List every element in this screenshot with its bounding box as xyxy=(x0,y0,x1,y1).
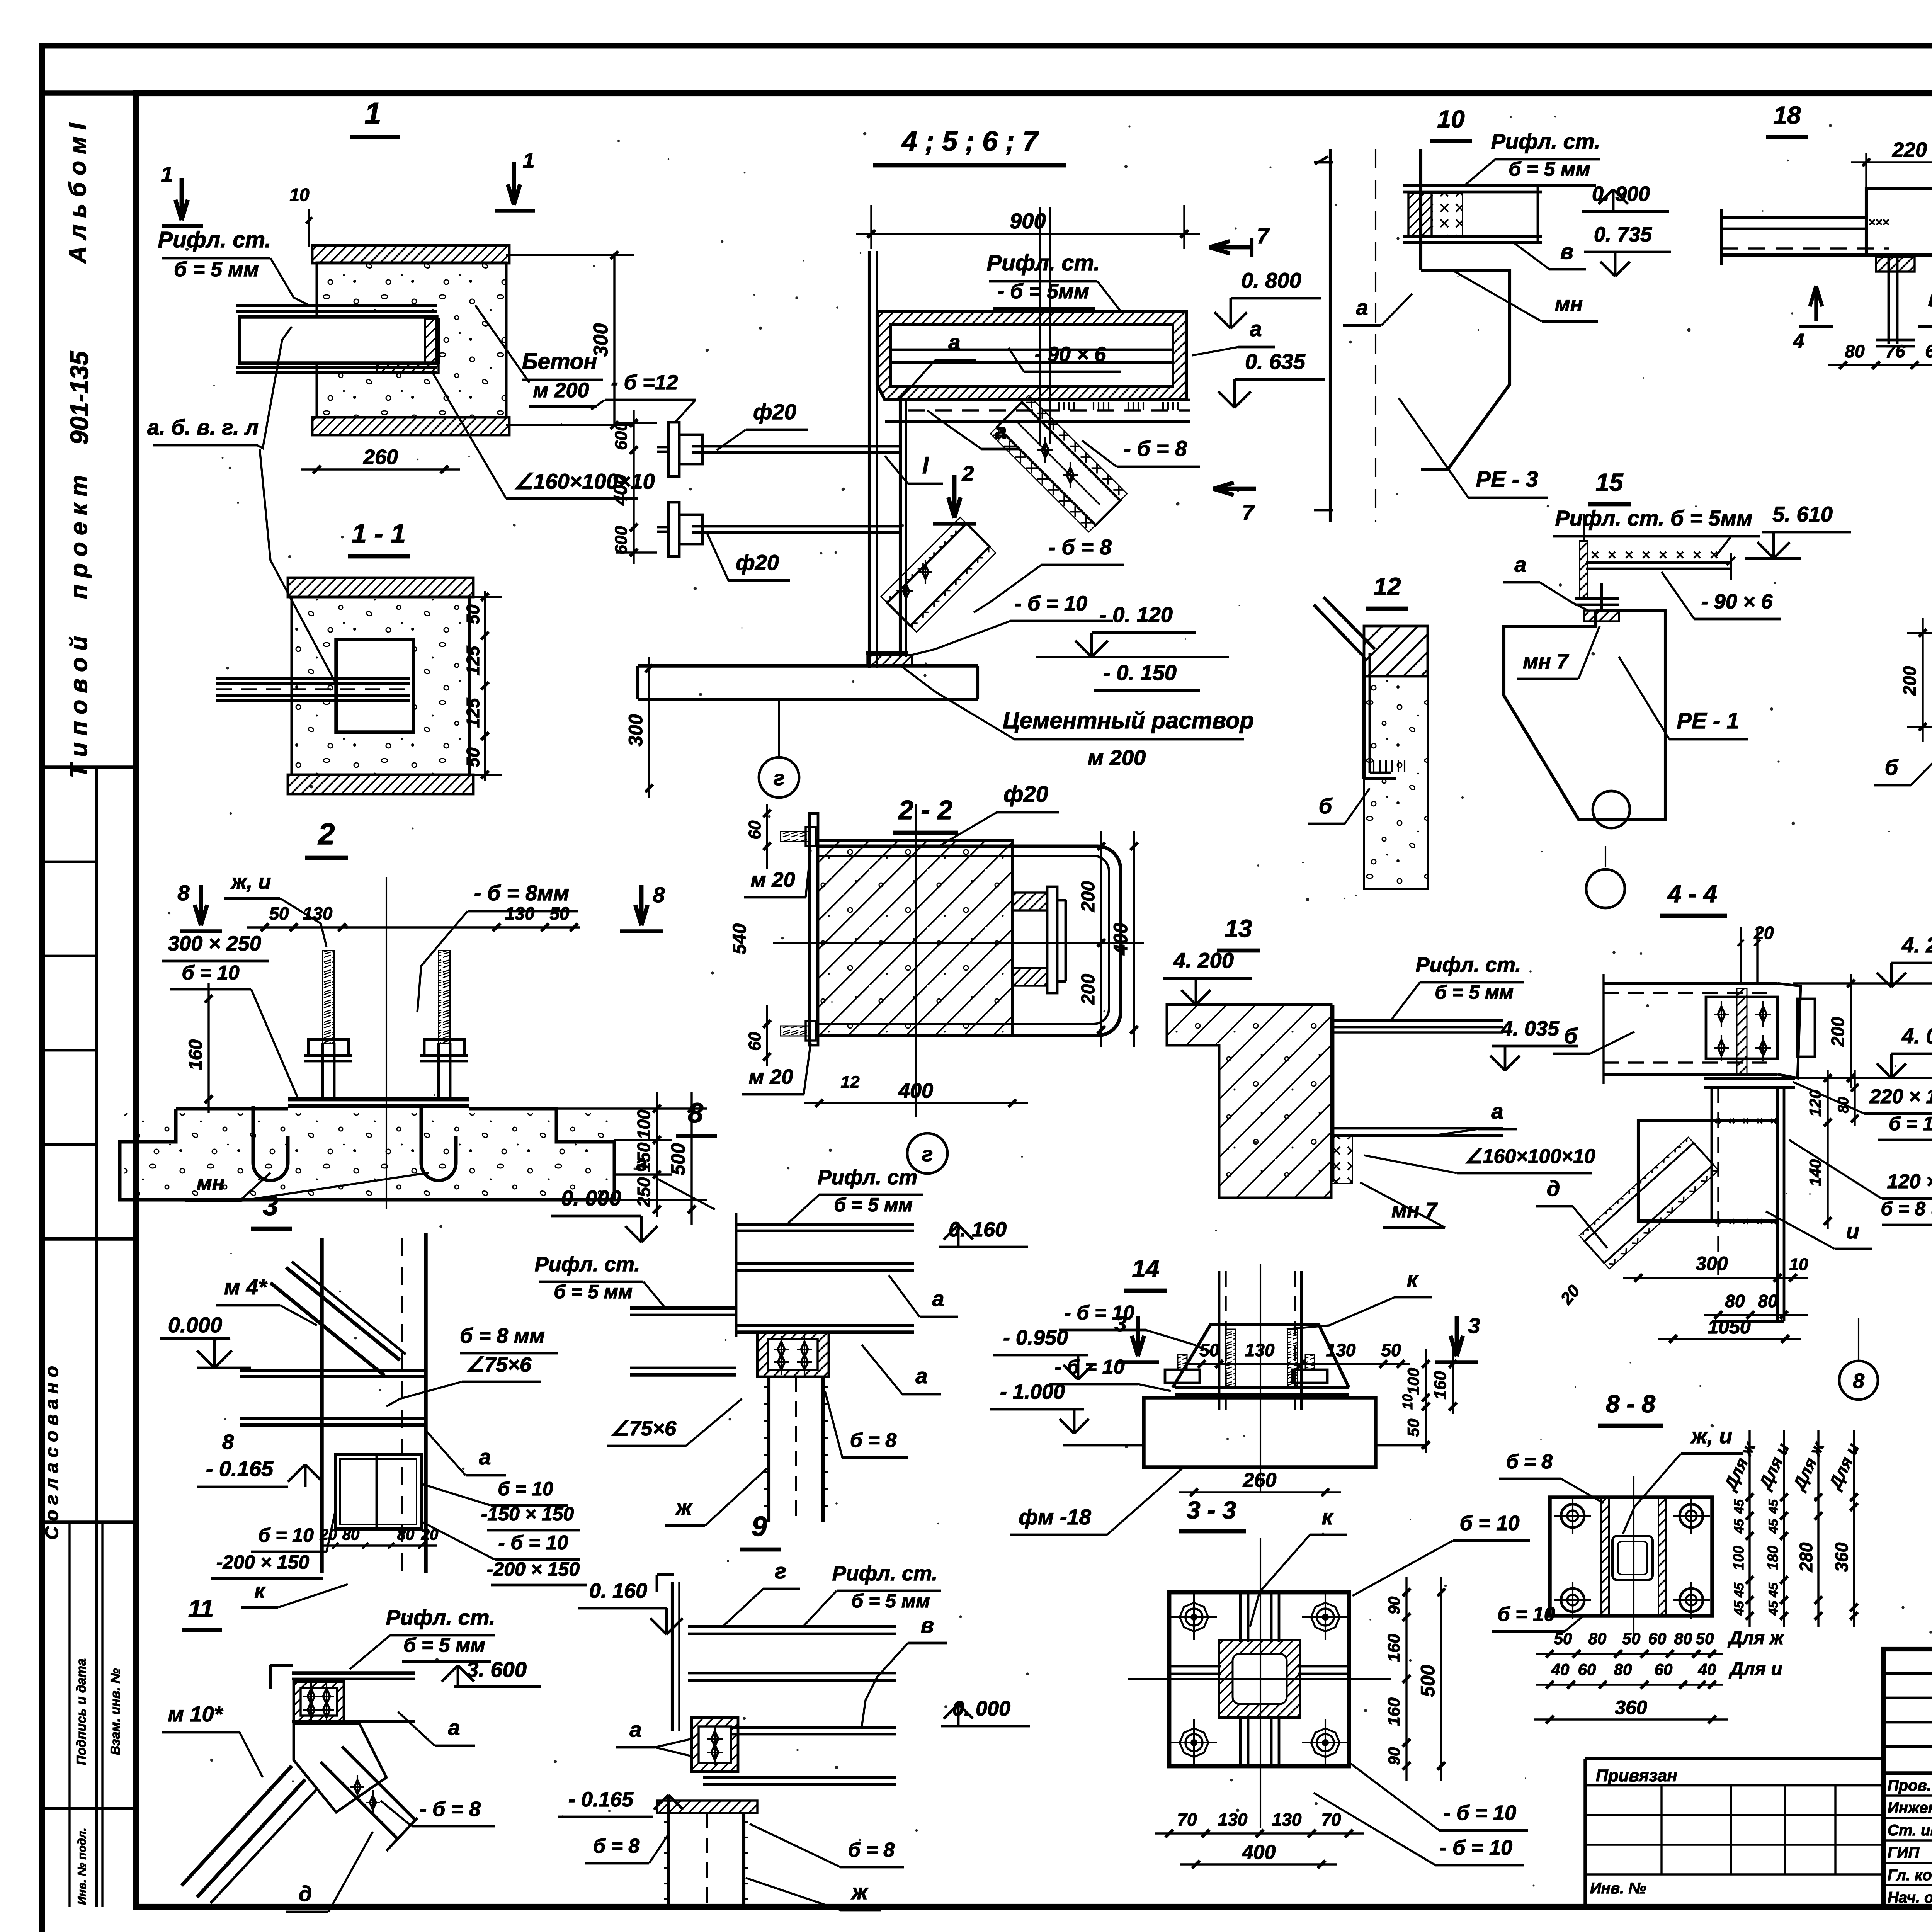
detail 9 lower beam xyxy=(703,1726,896,1729)
detail 2-2 left dims xyxy=(766,804,768,869)
detail 2-2 concrete block xyxy=(817,840,1012,1036)
svg-text:45: 45 xyxy=(1766,1600,1781,1616)
detail 11 top beam xyxy=(292,1671,415,1675)
detail 1-1 slot and beam xyxy=(336,639,413,732)
svg-text:б = 8: б = 8 xyxy=(1506,1451,1553,1473)
svg-text:160: 160 xyxy=(1384,1697,1403,1726)
svg-text:60: 60 xyxy=(745,820,764,839)
detail 1 section arrow 1 right xyxy=(512,162,516,205)
detail 4-4 bottom ticks xyxy=(1712,1320,1784,1323)
svg-text:0. 735: 0. 735 xyxy=(1594,223,1652,246)
detail 2-2 bottom bolt xyxy=(781,1026,810,1036)
svg-text:130: 130 xyxy=(505,903,535,923)
svg-text:3: 3 xyxy=(1468,1313,1480,1338)
svg-text:540: 540 xyxy=(730,923,750,954)
detail 2 top dims xyxy=(247,926,580,928)
svg-text:а: а xyxy=(448,1715,460,1740)
svg-text:50: 50 xyxy=(463,604,483,624)
svg-text:РЕ - 1: РЕ - 1 xyxy=(1677,708,1739,733)
detail 1-1 leader from 1 label xyxy=(260,449,336,684)
svg-text:8: 8 xyxy=(177,881,190,905)
title block outer xyxy=(1884,1649,1932,1907)
svg-text:п р о е к т: п р о е к т xyxy=(66,475,92,599)
detail 9 top beam xyxy=(688,1625,896,1628)
detail 4567 dim 900 xyxy=(856,233,1200,235)
svg-text:б: б xyxy=(1564,1024,1578,1048)
svg-text:б: б xyxy=(1319,794,1333,818)
svg-text:Рифл. ст.: Рифл. ст. xyxy=(158,227,271,252)
detail 2 dim 160 xyxy=(207,983,209,1113)
svg-text:Рифл. ст.: Рифл. ст. xyxy=(1416,953,1521,976)
detail 9 vertical post xyxy=(671,1582,674,1731)
svg-text:Рифл. ст.: Рифл. ст. xyxy=(535,1253,640,1276)
detail 3-3 centerlines xyxy=(1128,1678,1391,1680)
svg-text:10: 10 xyxy=(1789,1255,1808,1274)
svg-text:Для ж: Для ж xyxy=(1727,1628,1784,1648)
svg-text:500: 500 xyxy=(1417,1665,1439,1697)
svg-text:- б = 8: - б = 8 xyxy=(420,1798,481,1821)
detail 2-2 centerlines xyxy=(915,804,917,1117)
svg-text:- 0. 120: - 0. 120 xyxy=(1099,602,1173,627)
svg-text:220: 220 xyxy=(1892,138,1927,162)
svg-text:б = 5 мм: б = 5 мм xyxy=(174,258,259,281)
svg-text:д: д xyxy=(1547,1176,1560,1201)
svg-text:l: l xyxy=(922,453,929,478)
svg-text:50: 50 xyxy=(1622,1629,1641,1648)
svg-text:2: 2 xyxy=(317,817,335,851)
svg-text:8: 8 xyxy=(1853,1369,1864,1393)
svg-text:14: 14 xyxy=(1132,1255,1159,1282)
svg-text:200: 200 xyxy=(1078,881,1099,912)
svg-text:б = 5 мм: б = 5 мм xyxy=(1509,158,1590,180)
detail 8 left beam xyxy=(630,1306,736,1310)
svg-text:100: 100 xyxy=(1731,1546,1747,1570)
svg-text:200: 200 xyxy=(1078,974,1099,1005)
detail 14 foundation block xyxy=(1144,1398,1376,1467)
left stamp text Инв подпись strips xyxy=(68,1522,70,1907)
svg-text:20: 20 xyxy=(421,1526,439,1543)
detail 2-2 circled g xyxy=(907,1133,947,1173)
svg-text:7: 7 xyxy=(1242,500,1255,524)
detail 18 dim 220 xyxy=(1851,161,1932,163)
svg-text:ж, и: ж, и xyxy=(230,870,271,893)
detail 2 centerline xyxy=(386,877,387,1209)
svg-text:-200 × 150: -200 × 150 xyxy=(216,1551,310,1573)
detail 8-8 circled 8 xyxy=(1839,1361,1878,1400)
svg-text:360: 360 xyxy=(1615,1697,1647,1718)
svg-text:300: 300 xyxy=(625,714,646,747)
svg-text:Рифл. ст.: Рифл. ст. xyxy=(987,250,1100,276)
svg-text:64: 64 xyxy=(1925,341,1932,361)
detail 6-6 dim 200 xyxy=(1922,618,1923,742)
svg-text:А л ь б о м I: А л ь б о м I xyxy=(65,122,91,264)
svg-text:г: г xyxy=(636,1152,647,1175)
detail 3-3 right dims xyxy=(1405,1577,1407,1781)
svg-text:50: 50 xyxy=(1199,1340,1219,1360)
detail 4567 trough outer xyxy=(877,311,1186,400)
svg-text:к: к xyxy=(254,1579,266,1602)
detail 8 column box xyxy=(757,1332,829,1377)
svg-text:а: а xyxy=(1356,295,1368,320)
detail 2-2 stirrup bar xyxy=(818,846,1121,1036)
svg-text:м 20: м 20 xyxy=(750,868,795,891)
svg-text:ф20: ф20 xyxy=(753,400,796,424)
detail 4-4 dim 200 xyxy=(1850,974,1852,1088)
detail 2 concrete foundation xyxy=(176,1107,288,1111)
svg-text:- б = 8мм: - б = 8мм xyxy=(474,881,570,905)
detail 8-8 right chains xyxy=(1748,1430,1750,1627)
detail 14 column xyxy=(1218,1271,1221,1410)
svg-text:15: 15 xyxy=(1595,468,1624,496)
detail 2 anchor bolts xyxy=(323,951,334,1043)
svg-text:а. б. в. г. л: а. б. в. г. л xyxy=(147,415,259,439)
svg-text:400: 400 xyxy=(1242,1841,1276,1864)
svg-text:а: а xyxy=(629,1717,641,1742)
svg-text:г: г xyxy=(922,1143,933,1166)
svg-text:200: 200 xyxy=(1900,666,1920,696)
svg-text:300 × 250: 300 × 250 xyxy=(168,932,261,955)
svg-text:0.000: 0.000 xyxy=(168,1313,222,1337)
svg-text:901-135: 901-135 xyxy=(65,351,94,445)
svg-text:80: 80 xyxy=(1835,1097,1852,1113)
detail 4-4 diagonal brace xyxy=(1579,1137,1718,1269)
detail 8-8 centerline xyxy=(1633,1476,1634,1638)
svg-text:45: 45 xyxy=(1732,1499,1747,1514)
detail 3 box column below xyxy=(335,1454,421,1529)
detail 11 level 3.600 xyxy=(457,1665,459,1687)
title block row lines xyxy=(1884,1771,1932,1775)
detail 4567 left dims 600 400 600 xyxy=(633,410,634,564)
svg-text:- б = 8: - б = 8 xyxy=(1124,436,1187,461)
svg-text:б = 10: б = 10 xyxy=(1459,1512,1519,1535)
svg-text:г: г xyxy=(775,1559,786,1583)
svg-text:50: 50 xyxy=(549,903,570,923)
svg-text:4 - 4: 4 - 4 xyxy=(1667,880,1717,908)
svg-text:Инв. №: Инв. № xyxy=(1590,1880,1646,1897)
svg-text:б = 8 ш. 620: б = 8 ш. 620 xyxy=(1881,1198,1932,1219)
svg-text:б = 10: б = 10 xyxy=(258,1524,314,1546)
svg-text:120: 120 xyxy=(1806,1090,1824,1117)
detail 14 top dims xyxy=(1186,1363,1410,1365)
detail 11 bolt box xyxy=(294,1682,344,1722)
detail 2 section arrow 8 right xyxy=(639,885,644,925)
svg-text:100: 100 xyxy=(634,1109,654,1139)
detail 4567 left post xyxy=(868,251,871,668)
svg-text:Привязан: Привязан xyxy=(1596,1766,1677,1785)
detail 2-2 right bracket xyxy=(1012,893,1047,910)
svg-text:а: а xyxy=(1250,316,1262,341)
detail 2 J-bolts xyxy=(253,1106,288,1180)
detail 14 anchor bolts in gusset xyxy=(1226,1329,1236,1387)
detail 1-1 concrete block xyxy=(292,597,469,775)
svg-text:РЕ - 3: РЕ - 3 xyxy=(1476,467,1538,492)
svg-text:5. 610: 5. 610 xyxy=(1772,502,1833,526)
detail 1 section arrow 1 left xyxy=(180,178,184,220)
svg-text:Рифл. ст: Рифл. ст xyxy=(818,1166,917,1189)
svg-text:4. 200: 4. 200 xyxy=(1173,948,1234,973)
svg-text:д: д xyxy=(299,1881,312,1906)
svg-text:80: 80 xyxy=(1758,1291,1778,1311)
svg-text:20: 20 xyxy=(320,1526,337,1543)
svg-text:130: 130 xyxy=(1272,1810,1302,1830)
detail 18 arrows 4 xyxy=(1814,286,1818,321)
detail 14 gusset trapezoid xyxy=(1173,1325,1349,1388)
svg-text:45: 45 xyxy=(1732,1600,1747,1616)
svg-text:60: 60 xyxy=(1648,1629,1667,1648)
svg-text:Ст. инж.: Ст. инж. xyxy=(1888,1822,1932,1839)
detail 4-4 bottom dims xyxy=(1623,1277,1808,1279)
svg-text:600: 600 xyxy=(612,422,631,450)
svg-text:к: к xyxy=(1322,1505,1334,1529)
detail 4567 section arrow 7 top xyxy=(1209,245,1252,250)
svg-text:13: 13 xyxy=(1225,915,1252,942)
detail 4-4 bolt plate xyxy=(1706,997,1777,1059)
detail 3 bottom dims xyxy=(321,1544,437,1546)
svg-text:г: г xyxy=(774,767,785,790)
svg-text:0. 000: 0. 000 xyxy=(561,1186,621,1210)
svg-text:Для и: Для и xyxy=(1728,1659,1782,1679)
svg-text:- б = 8: - б = 8 xyxy=(1048,535,1112,559)
svg-text:4: 4 xyxy=(1793,330,1804,352)
detail 14 dim 260 xyxy=(1179,1491,1341,1493)
svg-text:8: 8 xyxy=(222,1430,234,1454)
svg-text:к: к xyxy=(1407,1267,1419,1291)
detail 18 bottom dims xyxy=(1828,364,1932,366)
svg-text:4. 000: 4. 000 xyxy=(1901,1024,1932,1048)
svg-text:50: 50 xyxy=(1554,1629,1572,1648)
svg-text:12: 12 xyxy=(841,1073,860,1092)
detail 10 top channel bracket xyxy=(1403,184,1542,187)
svg-text:120 × 180: 120 × 180 xyxy=(1887,1170,1932,1193)
svg-text:160: 160 xyxy=(1384,1634,1403,1662)
svg-text:18: 18 xyxy=(1773,101,1801,129)
svg-text:в: в xyxy=(1560,239,1573,264)
svg-text:б = 5 мм: б = 5 мм xyxy=(1435,981,1514,1003)
svg-text:60: 60 xyxy=(1578,1660,1596,1679)
svg-text:- 90 × 6: - 90 × 6 xyxy=(1701,590,1773,613)
svg-text:мн: мн xyxy=(197,1172,225,1195)
detail 4567 dim 300 lower left xyxy=(648,657,650,798)
svg-text:10: 10 xyxy=(1400,1394,1415,1410)
svg-text:мн 7: мн 7 xyxy=(1523,650,1570,673)
detail 4-4 beam xyxy=(1604,982,1777,985)
detail 1-1 dims right xyxy=(484,591,486,781)
top band line xyxy=(42,90,1932,96)
svg-text:- 90 × 6: - 90 × 6 xyxy=(1035,343,1107,366)
svg-text:б = 5 мм: б = 5 мм xyxy=(403,1634,485,1656)
detail 2 dims right xyxy=(656,1092,658,1217)
svg-text:а: а xyxy=(1514,552,1526,577)
svg-text:∠75×6: ∠75×6 xyxy=(466,1353,532,1376)
svg-text:ж: ж xyxy=(850,1879,869,1904)
svg-text:б = 5 мм: б = 5 мм xyxy=(851,1590,930,1612)
svg-text:б = 10: б = 10 xyxy=(182,962,239,984)
detail 13 concrete block xyxy=(1167,1005,1331,1198)
detail 11 stub brace xyxy=(321,1762,398,1839)
svg-text:8: 8 xyxy=(688,1098,703,1129)
detail 4-4 cap plate xyxy=(1704,1077,1795,1080)
svg-text:8 - 8: 8 - 8 xyxy=(1606,1390,1655,1418)
svg-text:70: 70 xyxy=(1321,1810,1341,1830)
detail 2-2 left plate xyxy=(810,813,818,1045)
svg-text:3 - 3: 3 - 3 xyxy=(1187,1496,1236,1524)
detail 3 diagonal brace m4 xyxy=(270,1283,384,1376)
svg-text:9: 9 xyxy=(752,1511,767,1542)
svg-text:ж: ж xyxy=(675,1495,693,1519)
svg-text:80: 80 xyxy=(1725,1291,1745,1311)
svg-text:12: 12 xyxy=(1373,573,1401,600)
svg-text:∠75×6: ∠75×6 xyxy=(611,1417,677,1440)
title block small grid xyxy=(1884,1672,1932,1675)
svg-text:Рифл. ст.: Рифл. ст. xyxy=(832,1562,938,1585)
svg-text:б: б xyxy=(1885,755,1899,779)
svg-text:м 200: м 200 xyxy=(1088,745,1146,770)
detail 18 right block xyxy=(1866,189,1932,255)
svg-text:40: 40 xyxy=(1551,1660,1570,1679)
svg-text:0. 800: 0. 800 xyxy=(1241,268,1301,293)
detail 1 dim 260 xyxy=(301,468,460,470)
svg-text:Гл. констр.: Гл. констр. xyxy=(1888,1867,1932,1884)
svg-text:70: 70 xyxy=(1177,1810,1197,1830)
svg-text:Подпись и дата: Подпись и дата xyxy=(74,1658,89,1765)
detail 2-2 top bolt xyxy=(781,832,810,842)
svg-text:б = 10: б = 10 xyxy=(1497,1603,1555,1626)
svg-text:40: 40 xyxy=(1698,1660,1716,1679)
detail 3 beam xyxy=(240,1369,426,1372)
detail 1 dim 300 xyxy=(613,253,615,427)
svg-text:2 - 2: 2 - 2 xyxy=(898,795,952,825)
svg-text:- б = 10: - б = 10 xyxy=(1444,1801,1516,1825)
detail 8-8 center tube xyxy=(1612,1536,1653,1580)
svg-text:м 200: м 200 xyxy=(533,379,589,402)
svg-text:260: 260 xyxy=(363,446,398,469)
detail 3 column xyxy=(320,1238,324,1573)
svg-text:Цементный раствор: Цементный раствор xyxy=(1003,707,1254,733)
detail 12 wall section xyxy=(1364,626,1428,676)
detail 1 concrete block xyxy=(317,263,506,417)
svg-text:160: 160 xyxy=(185,1039,206,1070)
detail 1 beam xyxy=(236,304,437,307)
svg-text:200: 200 xyxy=(1828,1017,1848,1047)
svg-text:76: 76 xyxy=(1885,341,1905,361)
svg-text:1 - 1: 1 - 1 xyxy=(352,519,406,549)
svg-text:45: 45 xyxy=(1732,1519,1747,1534)
svg-text:Инженер: Инженер xyxy=(1888,1799,1932,1816)
detail 1 embedded angle xyxy=(425,319,439,363)
detail 8-8 bottom rows xyxy=(1536,1653,1723,1655)
svg-text:300: 300 xyxy=(1696,1253,1728,1274)
svg-text:м 4*: м 4* xyxy=(224,1275,267,1299)
svg-text:- 1.000: - 1.000 xyxy=(1000,1380,1065,1403)
svg-text:- б = 5мм: - б = 5мм xyxy=(997,280,1089,303)
svg-text:4. 035: 4. 035 xyxy=(1501,1017,1560,1040)
detail 15 circle xyxy=(1593,791,1630,828)
svg-text:280: 280 xyxy=(1796,1542,1816,1572)
detail 9 bolt box xyxy=(692,1718,738,1772)
svg-text:а: а xyxy=(915,1364,927,1388)
detail 14 right dims xyxy=(1425,1349,1427,1453)
svg-text:3. 600: 3. 600 xyxy=(466,1657,527,1682)
svg-text:- б = 10: - б = 10 xyxy=(1064,1302,1134,1324)
svg-text:600: 600 xyxy=(612,526,631,554)
svg-text:ф20: ф20 xyxy=(1003,782,1048,807)
svg-text:а: а xyxy=(1491,1099,1503,1123)
svg-text:7: 7 xyxy=(1257,224,1270,248)
detail 15 top anchor xyxy=(1584,611,1619,621)
detail 15 left post xyxy=(1580,541,1587,599)
svg-text:360: 360 xyxy=(1832,1542,1852,1572)
svg-text:- 0.165: - 0.165 xyxy=(206,1456,274,1481)
svg-text:130: 130 xyxy=(1218,1810,1248,1830)
detail 13 beam xyxy=(1333,1019,1503,1022)
svg-text:- б = 10: - б = 10 xyxy=(1440,1836,1512,1859)
svg-text:60: 60 xyxy=(1655,1660,1673,1679)
detail 4567 anchor rods xyxy=(692,445,900,448)
svg-text:45: 45 xyxy=(1766,1582,1781,1598)
svg-text:мн: мн xyxy=(1555,293,1583,316)
detail 3-3 cross arms xyxy=(1169,1665,1221,1668)
svg-text:в: в xyxy=(921,1613,934,1637)
detail 12 angle xyxy=(1314,605,1364,657)
detail 3-3 corner bolts xyxy=(1180,1603,1208,1631)
svg-text:50: 50 xyxy=(269,903,289,923)
detail 8-8 plate xyxy=(1550,1497,1712,1616)
svg-text:-200 × 150: -200 × 150 xyxy=(487,1558,580,1580)
svg-text:∠160×100×10: ∠160×100×10 xyxy=(1464,1145,1595,1168)
svg-text:- 0. 150: - 0. 150 xyxy=(1103,660,1177,685)
svg-text:б = 5 мм: б = 5 мм xyxy=(834,1194,913,1216)
svg-text:90: 90 xyxy=(1385,1747,1403,1765)
svg-text:130: 130 xyxy=(303,903,333,923)
svg-text:45: 45 xyxy=(1766,1519,1781,1534)
svg-text:4. 200: 4. 200 xyxy=(1901,933,1932,957)
svg-text:Бетон: Бетон xyxy=(522,349,597,374)
svg-text:-150 × 150: -150 × 150 xyxy=(481,1503,574,1525)
svg-text:а: а xyxy=(995,419,1007,443)
detail 4-4 right dims 120 80 140 xyxy=(1827,1070,1828,1229)
left stamp table xyxy=(42,765,136,769)
detail 1 bottom hatch strip xyxy=(312,417,509,435)
detail 4567 section arrow 7 bottom xyxy=(1213,487,1256,491)
svg-text:Рифл. ст.: Рифл. ст. xyxy=(386,1605,495,1629)
svg-text:ГИП: ГИП xyxy=(1888,1844,1920,1861)
svg-text:- б = 10: - б = 10 xyxy=(1015,592,1087,615)
svg-text:45: 45 xyxy=(1732,1582,1747,1598)
svg-text:180: 180 xyxy=(1765,1546,1781,1570)
detail 13 angle with hatch xyxy=(1331,1135,1352,1184)
svg-text:а: а xyxy=(479,1445,491,1469)
svg-text:- б =12: - б =12 xyxy=(611,371,678,394)
detail 4-4 gusset rect xyxy=(1638,1121,1777,1221)
svg-text:3: 3 xyxy=(263,1190,278,1221)
svg-text:0. 160: 0. 160 xyxy=(589,1579,647,1602)
detail 14 base plate xyxy=(1175,1386,1349,1389)
detail 4567 circled g xyxy=(759,757,799,798)
svg-text:100: 100 xyxy=(1404,1368,1422,1395)
svg-text:50: 50 xyxy=(463,747,483,767)
svg-text:11: 11 xyxy=(188,1595,214,1622)
detail 8 right beam xyxy=(736,1223,914,1226)
svg-text:80: 80 xyxy=(1674,1629,1692,1648)
svg-text:125: 125 xyxy=(463,697,483,728)
detail 8-8 walls xyxy=(1601,1497,1609,1616)
detail 4567 base xyxy=(866,651,908,655)
svg-text:- 0.165: - 0.165 xyxy=(568,1788,634,1811)
svg-text:220 × 160: 220 × 160 xyxy=(1869,1085,1932,1108)
detail 8-8 bolts xyxy=(1561,1504,1584,1527)
detail 4567 lower diagonal brace xyxy=(881,517,996,632)
detail 15 shelf beam xyxy=(1586,561,1731,564)
